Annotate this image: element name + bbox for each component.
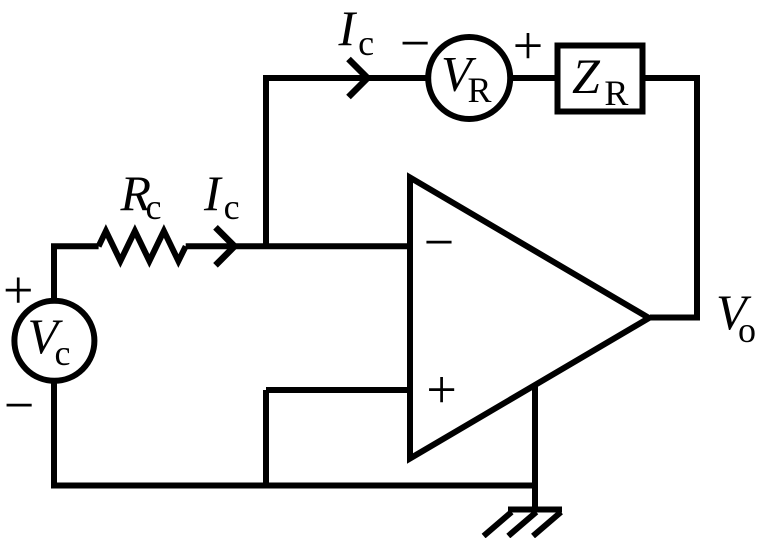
wire: resistor to op-amp inverting input: [186, 243, 410, 249]
svg-text:−: −: [400, 13, 430, 73]
voltage source Vc: [14, 301, 94, 381]
wire: bottom horizontal: [51, 483, 535, 489]
impedance ZR box: [558, 46, 643, 112]
svg-text:−: −: [4, 375, 34, 435]
resistor Rc: [99, 231, 186, 261]
ground: [484, 510, 562, 537]
wire: feedback vertical at x=266: [263, 78, 269, 246]
arrow on feedback wire (Ic): [349, 59, 368, 97]
wire: ZR box to top-right corner and down to output: [640, 78, 697, 318]
voltmeter VR: [428, 37, 510, 119]
wire: left vertical through Vc source: [51, 246, 57, 485]
wire: VR meter to ZR box: [509, 75, 560, 81]
wire: non-inverting input horizontal: [266, 387, 410, 393]
svg-text:+: +: [3, 260, 33, 320]
arrow on inverting input wire (Ic): [216, 227, 235, 265]
wire: ground vertical from op-amp bottom edge: [532, 384, 538, 510]
wire: non-inverting loop vertical: [263, 390, 269, 486]
wire: left horizontal to resistor: [51, 243, 99, 249]
svg-text:−: −: [424, 212, 454, 272]
svg-text:+: +: [513, 15, 543, 75]
wire: top horizontal to VR meter: [263, 75, 429, 81]
op-amp U1: [410, 178, 649, 459]
svg-text:+: +: [426, 359, 456, 419]
